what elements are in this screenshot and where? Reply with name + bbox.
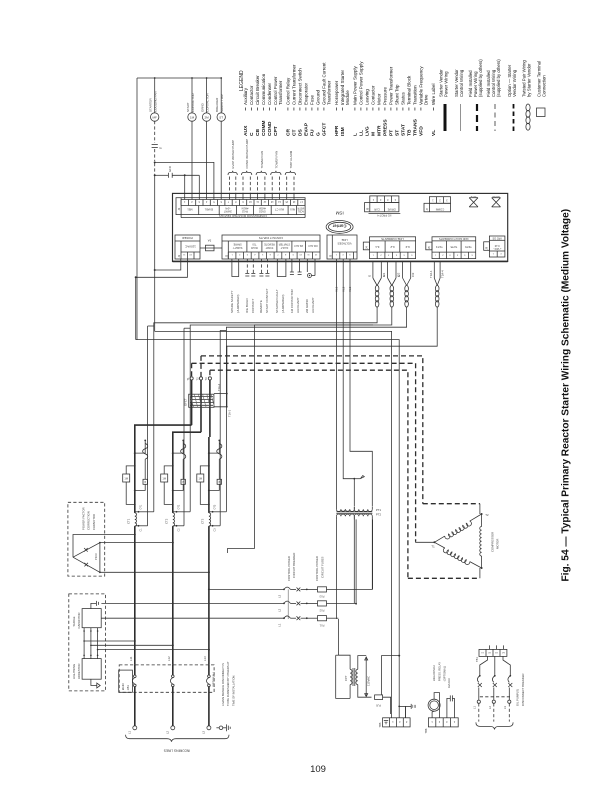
svg-text:STAT: STAT (401, 124, 407, 136)
svg-text:T1A-1: T1A-1 (228, 409, 232, 417)
svg-text:PT2: PT2 (376, 513, 382, 517)
svg-text:COMM: COMM (435, 208, 444, 212)
svg-text:PH12: PH12 (241, 210, 248, 213)
svg-text:Current Transformer: Current Transformer (292, 64, 297, 105)
svg-text:Horsepower: Horsepower (334, 80, 339, 105)
svg-text:PRESS. RELAY: PRESS. RELAY (437, 662, 441, 681)
svg-text:M: M (371, 132, 377, 136)
svg-text:1M: 1M (124, 477, 128, 481)
svg-text:MSTR: MSTR (297, 206, 304, 209)
svg-text:L3: L3 (202, 730, 206, 734)
svg-text:Circuit Breaker: Circuit Breaker (255, 75, 260, 105)
svg-text:MF: MF (153, 116, 157, 120)
svg-text:SPARE: SPARE (233, 242, 242, 245)
svg-text:MOTOR: MOTOR (496, 539, 500, 549)
svg-text:START: START (186, 102, 190, 112)
svg-text:TB1: TB1 (475, 657, 479, 662)
svg-text:Motor: Motor (377, 93, 382, 105)
svg-text:Transformer: Transformer (278, 80, 283, 105)
svg-text:MTR: MTR (377, 125, 383, 136)
svg-text:COMPRESSOR: COMPRESSOR (491, 532, 495, 552)
svg-text:115VAC: 115VAC (367, 676, 371, 686)
svg-text:SAFETY: SAFETY (232, 246, 242, 249)
svg-text:Condenser: Condenser (267, 82, 272, 105)
svg-text:GFR: GFR (168, 166, 172, 172)
svg-text:T1/T4: T1/T4 (435, 245, 442, 249)
svg-text:LIGHTNING: LIGHTNING (72, 664, 76, 679)
svg-text:REMOTE: REMOTE (264, 242, 275, 245)
svg-text:Disconnect Switch: Disconnect Switch (298, 68, 303, 105)
svg-text:G: G (382, 275, 386, 277)
svg-text:BREAKER: BREAKER (215, 97, 219, 112)
svg-text:REMOTE: REMOTE (259, 300, 263, 313)
svg-text:INCOMING LINES: INCOMING LINES (164, 749, 190, 753)
svg-text:HPR: HPR (334, 125, 340, 136)
svg-text:VFD OS: VFD OS (492, 237, 502, 240)
svg-text:AUX: AUX (243, 125, 249, 136)
svg-text:Evaporator: Evaporator (304, 82, 309, 105)
svg-text:COMPRESSOR MOUNTED DEVICES: COMPRESSOR MOUNTED DEVICES (219, 214, 267, 218)
svg-text:GFCT: GFCT (322, 123, 328, 136)
svg-text:VOLTAGES: VOLTAGES (337, 242, 351, 246)
svg-text:DISCONNECT BREAKER: DISCONNECT BREAKER (521, 674, 525, 707)
svg-text:IL2: IL2 (390, 245, 394, 249)
svg-text:0-10: 0-10 (494, 244, 499, 247)
svg-text:DS: DS (298, 128, 304, 136)
svg-text:2M GRND: 2M GRND (305, 298, 309, 313)
svg-text:CPT: CPT (273, 126, 279, 136)
svg-text:CIRCUIT FUSES: CIRCUIT FUSES (320, 556, 324, 578)
svg-text:G: G (316, 132, 322, 136)
svg-text:CT2: CT2 (165, 518, 169, 524)
svg-text:PT: PT (389, 130, 395, 136)
svg-text:EVAP WATER PUMP: EVAP WATER PUMP (231, 140, 235, 169)
svg-text:COMM: COMM (261, 121, 267, 136)
svg-text:Fuse: Fuse (310, 94, 315, 105)
svg-text:FU: FU (310, 129, 316, 136)
svg-text:PT1: PT1 (376, 508, 382, 512)
svg-text:L: L (353, 133, 359, 136)
svg-text:(JUMPERED): (JUMPERED) (281, 294, 285, 313)
svg-text:T1A-4: T1A-4 (217, 383, 221, 391)
svg-text:by Starter Vendor: by Starter Vendor (527, 63, 532, 97)
svg-text:CONTACT INPUTS: CONTACT INPUTS (259, 236, 283, 240)
svg-text:(JUMPERED): (JUMPERED) (236, 294, 240, 313)
svg-text:LEGEND: LEGEND (239, 70, 245, 91)
svg-text:CAPACITOR: CAPACITOR (77, 612, 81, 628)
svg-text:1M: 1M (190, 116, 195, 120)
svg-text:ACBL: ACBL (297, 210, 304, 213)
svg-text:CT: CT (292, 129, 298, 136)
svg-text:IL1: IL1 (375, 245, 379, 249)
svg-text:CI3: CI3 (411, 272, 415, 277)
svg-text:1M: 1M (162, 477, 166, 481)
svg-text:T2: T2 (485, 513, 489, 517)
svg-text:(OPTIONAL): (OPTIONAL) (443, 666, 447, 681)
svg-text:Terminal Block: Terminal Block (407, 75, 412, 105)
svg-text:CT1: CT1 (127, 518, 131, 524)
svg-text:ARRESTOR: ARRESTOR (77, 664, 81, 680)
svg-text:Transition: Transition (413, 85, 418, 105)
svg-text:Module: Module (345, 90, 350, 105)
svg-text:TO BE FURNISHED BY OTHERS AT: TO BE FURNISHED BY OTHERS AT (226, 661, 230, 706)
svg-text:PFCC: PFCC (94, 553, 98, 560)
svg-text:CONTACT: CONTACT (251, 299, 255, 313)
svg-text:MAIN: MAIN (121, 684, 125, 691)
svg-text:OIL PUMP(S): OIL PUMP(S) (516, 689, 520, 706)
svg-text:Main Power Supply: Main Power Supply (353, 65, 358, 105)
svg-text:OT3: OT3 (214, 504, 217, 509)
svg-text:CT3: CT3 (201, 518, 205, 524)
svg-text:DRIVE: DRIVE (387, 207, 395, 211)
svg-text:Power Transformer: Power Transformer (389, 66, 394, 105)
svg-text:Control Wiring: Control Wiring (459, 69, 464, 97)
svg-text:TIME OF INSTALLATION.: TIME OF INSTALLATION. (231, 675, 235, 706)
svg-text:#M1M: #M1M (242, 206, 249, 209)
svg-text:TOWER FAN: TOWER FAN (260, 151, 264, 169)
svg-text:A MAIN BRANCH DISCONNECT IS: A MAIN BRANCH DISCONNECT IS (221, 663, 225, 706)
svg-text:LVG: LVG (365, 126, 371, 136)
svg-text:WYE: WYE (470, 195, 476, 199)
svg-text:+24V: +24V (225, 206, 231, 209)
svg-text:START: START (265, 246, 273, 249)
svg-text:CONTROL POWER: CONTROL POWER (315, 556, 319, 581)
svg-text:MB1: MB1 (187, 208, 193, 211)
svg-text:FU2: FU2 (319, 609, 324, 612)
svg-text:(supplied by others): (supplied by others) (478, 59, 483, 97)
svg-text:L11: L11 (129, 656, 133, 661)
svg-text:BULB: BULB (251, 246, 258, 249)
svg-text:L12: L12 (167, 656, 171, 661)
svg-text:CONTACTOR: CONTACTOR (205, 92, 209, 112)
svg-text:+ VDC -: + VDC - (493, 247, 502, 250)
svg-text:Drive: Drive (424, 94, 429, 105)
svg-text:START CONTACT: START CONTACT (265, 288, 269, 313)
svg-text:ST: ST (219, 116, 223, 120)
svg-text:TB: TB (407, 129, 413, 136)
svg-text:OT1: OT1 (140, 504, 143, 509)
svg-text:TOWER FAN: TOWER FAN (275, 151, 279, 169)
svg-text:CPT: CPT (344, 675, 348, 681)
svg-text:Pressure: Pressure (383, 86, 388, 105)
svg-text:110VAC: 110VAC (184, 245, 196, 249)
svg-text:CONTACTOR: CONTACTOR (191, 92, 195, 112)
svg-text:1M AUX: 1M AUX (294, 244, 304, 247)
svg-text:Auxiliary: Auxiliary (243, 87, 248, 105)
svg-text:POWER FACTOR: POWER FACTOR (81, 507, 85, 530)
svg-text:COND WATER PUMP: COND WATER PUMP (245, 139, 249, 169)
svg-text:#M2M: #M2M (259, 206, 266, 209)
svg-text:CB: CB (255, 128, 261, 136)
svg-text:T1A-1: T1A-1 (429, 270, 433, 278)
svg-text:ISM: ISM (335, 211, 343, 216)
svg-text:TB6: TB6 (424, 728, 428, 733)
svg-text:T2/T5: T2/T5 (450, 245, 457, 249)
svg-text:GRND: GRND (200, 102, 204, 112)
svg-text:FAULT: FAULT (280, 246, 288, 249)
svg-text:Leaving: Leaving (365, 89, 370, 105)
svg-text:OT2: OT2 (178, 504, 181, 509)
svg-text:Control Relay: Control Relay (286, 77, 291, 105)
svg-text:SHUNT TRIP: SHUNT TRIP (220, 94, 224, 112)
svg-text:1M: 1M (198, 477, 202, 481)
svg-text:COND: COND (267, 121, 273, 136)
svg-text:ICE BUILD: ICE BUILD (245, 297, 249, 313)
svg-text:L1: L1 (278, 623, 282, 627)
svg-text:TRIP ALARM: TRIP ALARM (289, 150, 293, 168)
svg-text:(OPTIONAL): (OPTIONAL) (212, 672, 216, 687)
svg-text:Connection: Connection (542, 75, 547, 97)
svg-text:ST: ST (395, 130, 401, 136)
svg-text:2M/INT: 2M/INT (223, 210, 231, 213)
svg-text:1M CONTACTOR: 1M CONTACTOR (290, 288, 294, 313)
svg-text:T1A-4: T1A-4 (441, 270, 445, 278)
svg-text:FU3: FU3 (319, 595, 324, 598)
svg-text:Contactor: Contactor (371, 85, 376, 105)
svg-text:G: G (367, 275, 371, 277)
svg-text:2M: 2M (205, 116, 210, 120)
svg-text:I/O PROT-4: I/O PROT-4 (377, 213, 392, 217)
svg-text:CONTROL POWER: CONTROL POWER (287, 556, 291, 581)
svg-text:LINE: LINE (341, 238, 347, 242)
svg-text:CORRECTION: CORRECTION (87, 511, 91, 530)
svg-text:LINE CURRENTS: LINE CURRENTS (381, 237, 404, 241)
svg-text:Contactor: Contactor (249, 85, 254, 105)
svg-text:L1: L1 (128, 730, 132, 734)
svg-text:1M AUX: 1M AUX (447, 678, 451, 688)
svg-text:G: G (397, 275, 401, 277)
svg-text:CB1: CB1 (126, 685, 130, 691)
svg-text:T1: T1 (431, 545, 435, 549)
svg-text:GND FAULT CURRENTS: GND FAULT CURRENTS (439, 237, 469, 241)
svg-text:Carrier: Carrier (332, 224, 346, 229)
svg-text:VL: VL (431, 130, 437, 136)
svg-text:COOLING FAN: COOLING FAN (154, 91, 158, 112)
svg-text:VFD: VFD (419, 126, 425, 136)
svg-text:Wire Label: Wire Label (431, 83, 436, 105)
svg-text:POWER: POWER (182, 236, 193, 240)
svg-text:SURGE: SURGE (72, 616, 76, 626)
svg-text:HIGH DISCH: HIGH DISCH (432, 665, 436, 681)
svg-text:EVAP: EVAP (304, 122, 310, 136)
svg-text:T3/T6: T3/T6 (464, 245, 471, 249)
svg-text:Power Wiring: Power Wiring (444, 71, 449, 97)
svg-text:AUXILIARY: AUXILIARY (296, 297, 300, 313)
svg-text:(supplied by others): (supplied by others) (496, 59, 501, 97)
svg-text:L2: L2 (166, 730, 170, 734)
svg-text:Fig. 54 — Typical Primary Reac: Fig. 54 — Typical Primary Reactor Starte… (561, 209, 572, 582)
svg-text:FU1: FU1 (319, 624, 324, 627)
svg-text:MLV CT: MLV CT (275, 208, 284, 211)
svg-text:AUXILIARY: AUXILIARY (311, 297, 315, 313)
svg-text:109: 109 (310, 764, 326, 775)
svg-text:CAPACITOR: CAPACITOR (92, 514, 96, 530)
svg-text:GFCT: GFCT (184, 398, 188, 406)
svg-text:CIRCUIT BREAKER: CIRCUIT BREAKER (292, 553, 296, 578)
svg-text:Vendor Wiring: Vendor Wiring (512, 69, 517, 97)
svg-text:Shunt Trip: Shunt Trip (395, 84, 400, 105)
svg-text:PRESS: PRESS (383, 119, 389, 136)
svg-text:Ground: Ground (316, 89, 321, 105)
svg-text:STARTER FAULT: STARTER FAULT (275, 289, 279, 313)
svg-text:Communication: Communication (261, 73, 266, 105)
svg-text:GRND: GRND (492, 195, 500, 199)
svg-text:L13: L13 (203, 656, 207, 661)
svg-text:Control Power Supply: Control Power Supply (359, 61, 364, 105)
svg-text:STARTER: STARTER (149, 97, 153, 112)
svg-text:GND2: GND2 (258, 210, 265, 213)
svg-text:IL3: IL3 (405, 245, 409, 249)
svg-text:ISM: ISM (340, 127, 346, 136)
svg-text:Transformer: Transformer (327, 80, 332, 105)
svg-text:MLV: MLV (290, 208, 295, 211)
svg-text:L2: L2 (278, 608, 282, 612)
svg-text:TB5: TB5 (378, 722, 382, 727)
svg-text:CR: CR (286, 128, 292, 136)
svg-text:L3: L3 (278, 594, 282, 598)
svg-text:TRANS: TRANS (413, 118, 419, 136)
svg-text:TOI: TOI (252, 242, 256, 245)
svg-text:STARTER: STARTER (278, 242, 290, 245)
svg-text:C: C (249, 132, 255, 136)
svg-text:ENABL: ENABL (204, 208, 213, 211)
svg-text:CUR: CUR (374, 207, 380, 211)
svg-text:Status: Status (401, 91, 406, 105)
svg-text:FU5: FU5 (376, 704, 381, 707)
svg-text:DR AUX: DR AUX (308, 244, 318, 247)
svg-text:3A: 3A (208, 239, 212, 243)
svg-text:LL: LL (359, 130, 365, 136)
svg-text:SPARE SAFETY: SPARE SAFETY (230, 291, 234, 313)
